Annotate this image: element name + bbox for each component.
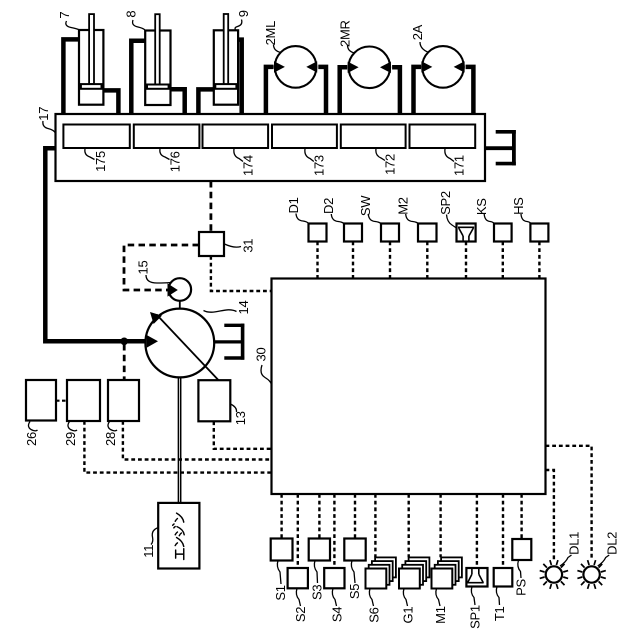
signal line 30 to S3 (dotted) <box>318 494 320 539</box>
svg-text:30: 30 <box>253 348 268 362</box>
link 26 to 29 (dashed) <box>56 400 67 402</box>
svg-text:PS: PS <box>514 579 529 596</box>
actuator stack M1 <box>432 557 462 588</box>
signal line 30 to DL2 (dotted) <box>546 446 592 560</box>
svg-text:174: 174 <box>241 155 256 176</box>
svg-text:7: 7 <box>57 12 72 19</box>
svg-text:M2: M2 <box>396 197 411 215</box>
signal line 30 to PS (dotted) <box>520 494 522 539</box>
signal line 30 to S4 (dotted) <box>333 494 335 568</box>
label 17 <box>36 107 55 133</box>
label 173 <box>305 149 326 176</box>
wire pipe cylinder9 left <box>198 89 213 113</box>
label KS <box>474 198 494 224</box>
svg-text:SP2: SP2 <box>438 191 453 215</box>
valve section 175 <box>63 125 129 149</box>
lamp DL2 <box>577 560 605 589</box>
signal line 30 to S1 (dotted) <box>280 494 282 539</box>
signal line SP2 to 30 (dotted) <box>465 242 467 279</box>
sensor box HS <box>530 224 548 242</box>
cylinder 9 <box>214 14 238 105</box>
svg-text:15: 15 <box>136 261 151 275</box>
valve 15 <box>169 278 192 301</box>
katakana N <box>175 537 184 546</box>
svg-text:11: 11 <box>141 545 156 558</box>
arrowhead into pump <box>147 335 158 348</box>
actuator box S1 <box>271 539 293 561</box>
svg-text:2ML: 2ML <box>263 21 278 45</box>
label 30 <box>253 348 271 385</box>
label 176 <box>160 149 183 172</box>
svg-text:S5: S5 <box>347 584 362 599</box>
katakana N <box>175 513 184 522</box>
label D2 <box>321 198 344 224</box>
actuator stack S6 <box>366 557 396 588</box>
signal line HS to 30 (dotted) <box>538 242 540 279</box>
lamp DL1 <box>540 560 568 589</box>
svg-text:G1: G1 <box>400 607 415 624</box>
label 8 <box>124 11 145 30</box>
label DL2 <box>598 532 620 566</box>
label 29 <box>63 422 78 446</box>
actuator box S4 <box>324 568 344 588</box>
signal line 30 to S2 (dotted) <box>297 494 299 568</box>
signal line 30 to DL1 (dotted) <box>546 470 554 560</box>
svg-text:S3: S3 <box>309 585 324 600</box>
cylinder 8 <box>145 14 170 105</box>
sensor box SW <box>381 224 399 242</box>
label D1 <box>286 197 309 223</box>
signal line 30 to SP1 (dotted) <box>476 494 478 568</box>
label 174 <box>234 149 256 176</box>
mechanical port symbol right of pump <box>214 324 244 360</box>
svg-text:2MR: 2MR <box>338 20 353 47</box>
label 28 <box>103 422 118 446</box>
engine text katakana ENJIN <box>173 513 185 559</box>
svg-text:T1: T1 <box>492 607 507 622</box>
engine shaft <box>178 377 180 503</box>
label S6 <box>366 589 381 623</box>
svg-text:173: 173 <box>311 155 326 176</box>
tank port symbol right of manifold <box>485 130 516 165</box>
label M2 <box>396 197 419 223</box>
svg-text:KS: KS <box>474 198 489 215</box>
svg-text:2A: 2A <box>410 24 425 40</box>
label 31 <box>225 239 256 253</box>
svg-text:175: 175 <box>93 151 108 172</box>
junction node on supply line <box>120 338 128 346</box>
label HS <box>511 197 531 224</box>
actuator box T1 <box>494 568 513 587</box>
wire pipe cylinder9 right <box>238 40 242 114</box>
svg-text:SW: SW <box>358 195 373 216</box>
label DL1 <box>560 532 582 566</box>
label 7 <box>57 12 79 30</box>
valve section 176 <box>134 125 200 149</box>
label M1 <box>433 589 448 624</box>
actuator box S3 <box>309 539 330 561</box>
actuator box S2 <box>288 568 308 588</box>
sensor box KS <box>494 224 512 242</box>
katakana E <box>176 549 184 560</box>
label 15 <box>136 261 171 283</box>
signal line 30 to M1 (dotted) <box>439 494 441 557</box>
wire pipe cylinder7 left <box>63 39 79 113</box>
signal line 30 to S5 (dotted) <box>354 494 356 539</box>
label 13 <box>231 404 249 425</box>
label S5 <box>347 561 362 600</box>
svg-text:HS: HS <box>511 197 526 215</box>
label SW <box>358 195 381 224</box>
svg-text:M1: M1 <box>433 606 448 624</box>
svg-text:DL1: DL1 <box>567 532 582 555</box>
actuator stack G1 <box>399 557 429 588</box>
signal line 30 to T1 (dotted) <box>502 494 504 568</box>
motor 2MR <box>340 47 400 114</box>
label G1 <box>400 589 415 624</box>
label 11 <box>141 528 159 558</box>
regulator box 31 <box>199 232 224 256</box>
engine box 11 <box>158 503 199 569</box>
label 26 <box>24 422 39 446</box>
label PS <box>514 560 529 596</box>
signal line 31 to controller 30 (dotted) <box>211 256 272 291</box>
signal line M2 to 30 (dotted) <box>426 242 428 279</box>
motor 2A <box>414 46 474 113</box>
label S3 <box>309 561 324 601</box>
wire pipe cylinder7 right <box>103 90 118 113</box>
label S1 <box>273 561 288 601</box>
manifold block 17 <box>56 114 486 181</box>
label 175 <box>85 149 108 172</box>
speaker box SP2 <box>457 224 476 242</box>
svg-text:28: 28 <box>103 432 118 446</box>
label 2A <box>410 24 429 52</box>
signal line SW to 30 (dotted) <box>389 242 391 279</box>
box 28 <box>108 380 139 421</box>
box 29 <box>67 380 100 421</box>
sensor box D1 <box>309 224 327 242</box>
label S4 <box>329 588 344 622</box>
swash plate arrow through pump <box>150 312 220 381</box>
katakana JI <box>173 524 185 536</box>
actuator box PS <box>512 539 531 560</box>
label 2MR <box>338 20 355 53</box>
svg-text:S2: S2 <box>293 607 308 622</box>
label 9 <box>235 10 251 29</box>
valve section 174 <box>203 125 269 149</box>
svg-text:13: 13 <box>233 411 248 425</box>
signal line D1 to 30 (dotted) <box>316 242 318 279</box>
svg-text:14: 14 <box>236 301 251 315</box>
wire pipe cylinder8 left <box>131 41 145 114</box>
svg-text:8: 8 <box>124 11 139 18</box>
wire supply line from manifold to pump <box>45 148 146 341</box>
svg-text:DL2: DL2 <box>604 532 619 555</box>
pilot line manifold to regulator 31 (dashed) <box>209 181 212 232</box>
valve section 172 <box>341 125 406 149</box>
cylinder 7 <box>79 14 103 105</box>
label SP2 <box>438 191 457 228</box>
signal line 13 to 30 (dotted) <box>214 421 272 449</box>
label T1 <box>492 587 507 622</box>
controller 30 <box>272 279 546 495</box>
box 26 <box>26 380 56 421</box>
actuator box S5 <box>344 539 365 561</box>
valve section 173 <box>272 125 337 149</box>
svg-text:29: 29 <box>63 432 78 446</box>
svg-text:176: 176 <box>167 151 182 172</box>
svg-text:S4: S4 <box>329 607 344 622</box>
signal line 30 to S6 (dotted) <box>374 494 376 557</box>
svg-text:172: 172 <box>383 154 398 175</box>
svg-text:D2: D2 <box>321 198 336 214</box>
label 2ML <box>263 21 281 53</box>
svg-text:SP1: SP1 <box>467 605 482 629</box>
arrowhead into valve 15 <box>168 283 178 296</box>
label 14 <box>204 301 252 315</box>
svg-text:9: 9 <box>236 10 251 17</box>
svg-text:D1: D1 <box>286 197 301 213</box>
signal line 28 to 30 (dotted) <box>123 421 272 460</box>
regulator box 13 <box>198 380 230 421</box>
label 171 <box>445 149 467 176</box>
pilot line junction to box 28 (dashed) <box>123 344 126 380</box>
signal line KS to 30 (dotted) <box>502 242 504 279</box>
signal line 30 to G1 (dotted) <box>408 494 410 557</box>
sensor box M2 <box>418 224 437 242</box>
label S2 <box>293 588 308 622</box>
motor 2ML <box>266 46 326 113</box>
signal line 29 to 30 (dotted) <box>84 421 271 473</box>
label 172 <box>376 149 398 175</box>
wire valve 15 to pump <box>179 301 181 309</box>
wire pipe cylinder8 right <box>171 89 185 113</box>
valve section 171 <box>410 125 476 149</box>
svg-text:26: 26 <box>24 432 39 446</box>
svg-text:S6: S6 <box>366 607 381 622</box>
sensor box D2 <box>344 224 362 242</box>
speaker box SP1 <box>466 568 487 587</box>
pump 14 <box>145 309 214 378</box>
svg-text:31: 31 <box>241 239 256 253</box>
svg-text:171: 171 <box>452 155 467 176</box>
label SP1 <box>467 587 482 629</box>
svg-text:17: 17 <box>36 107 51 121</box>
signal line D2 to 30 (dotted) <box>352 242 354 279</box>
pilot line 31 to valve 15 (dashed) <box>124 245 199 290</box>
svg-text:S1: S1 <box>273 585 288 600</box>
